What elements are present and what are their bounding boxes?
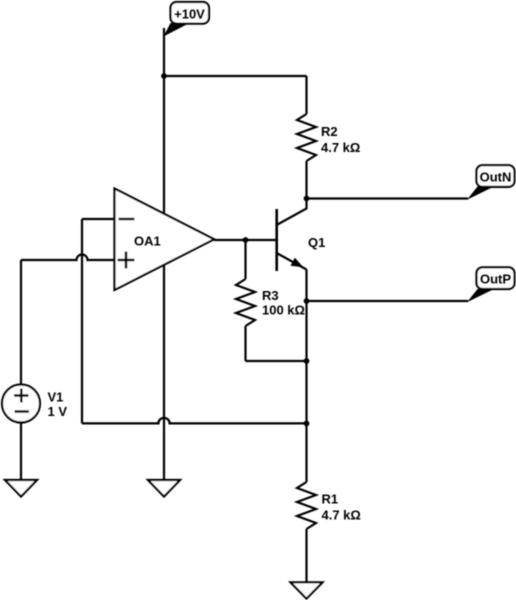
resistor R3	[236, 279, 255, 326]
transistor Q1 emitter lead	[278, 254, 307, 270]
wire R1 top lead	[305, 423, 307, 482]
op-amp OA1 body	[115, 189, 215, 291]
wire OutP horizontal	[307, 300, 469, 302]
svg-text:4.7 kΩ: 4.7 kΩ	[321, 140, 360, 155]
wire V+ vertical from +10V flag down through junction to op-amp top	[163, 28, 165, 230]
junction node bottom rail / R1	[304, 421, 310, 427]
wire V1 top lead	[20, 260, 22, 385]
voltage source V1 plus symbol	[14, 389, 29, 403]
wire R1 bottom lead to ground	[305, 529, 307, 582]
net flag OutN box	[477, 165, 515, 187]
svg-text:OA1: OA1	[134, 234, 161, 249]
wire V1 bottom lead to ground	[20, 423, 22, 481]
ground for op-amp V-	[148, 480, 180, 497]
wire emitter vertical down through OutP and R3 node to bottom rail	[305, 270, 307, 424]
svg-text:OutP: OutP	[480, 272, 511, 287]
transistor Q1 base bar	[275, 209, 278, 271]
wire non-inverting input horizontal with hop over feedback	[21, 255, 115, 261]
net flag OutN tail	[467, 187, 494, 200]
svg-text:1 V: 1 V	[48, 404, 68, 419]
svg-text:R1: R1	[322, 492, 339, 507]
svg-text:V1: V1	[48, 390, 64, 405]
wire op-amp V- pin down to ground	[163, 252, 165, 480]
wire OutN horizontal	[307, 197, 469, 199]
wire feedback vertical	[81, 219, 83, 423]
junction node collector / OutN	[304, 196, 310, 202]
transistor Q1 emitter arrow	[291, 258, 304, 268]
wire op-amp output to base	[214, 239, 277, 241]
junction node emitter / OutP	[304, 298, 310, 304]
wire R2 top lead	[305, 76, 307, 114]
resistor R2	[297, 114, 316, 161]
junction node base / R3	[243, 237, 249, 243]
resistor R1	[297, 482, 316, 529]
op-amp OA1 plus input symbol	[118, 252, 135, 269]
svg-text:R3: R3	[262, 288, 279, 303]
svg-text:Q1: Q1	[308, 235, 325, 250]
svg-text:100 kΩ: 100 kΩ	[262, 303, 305, 318]
ground for V1	[5, 480, 37, 497]
wire top rail horizontal +10V to R2	[164, 75, 307, 77]
net flag OutP box	[477, 267, 515, 289]
junction node at +10V rail	[161, 73, 167, 79]
svg-text:R2: R2	[321, 124, 338, 139]
wire R3 top lead	[244, 240, 246, 279]
wire bottom feedback rail left segment with hop	[82, 418, 307, 424]
voltage source V1 minus symbol	[15, 410, 30, 413]
ground for R1	[291, 582, 323, 598]
svg-text:4.7 kΩ: 4.7 kΩ	[322, 508, 361, 523]
power flag +10V tail	[164, 23, 189, 37]
net flag OutP tail	[467, 289, 494, 302]
wire inverting input horizontal	[82, 218, 115, 220]
power flag +10V box	[171, 2, 210, 24]
wire R3 bottom lead	[244, 326, 246, 361]
voltage source V1 circle	[2, 385, 40, 423]
wire R2 bottom lead to collector node	[305, 161, 307, 199]
junction node R3 bottom / emitter line	[304, 358, 310, 364]
transistor Q1 collector lead	[278, 199, 307, 225]
svg-text:OutN: OutN	[480, 170, 512, 185]
wire R3 bottom horizontal to emitter line	[246, 360, 307, 362]
op-amp OA1 minus input symbol	[119, 218, 135, 221]
svg-text:+10V: +10V	[174, 6, 205, 21]
